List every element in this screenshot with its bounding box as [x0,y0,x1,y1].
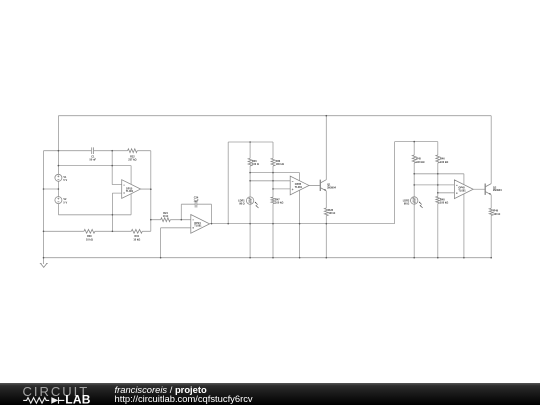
svg-text:1 µF: 1 µF [193,200,199,203]
svg-text:2N3904: 2N3904 [327,187,336,190]
svg-text:98 Ω: 98 Ω [239,203,244,206]
svg-text:100 kΩ: 100 kΩ [440,202,448,205]
svg-text:100 kΩ: 100 kΩ [275,202,283,205]
svg-text:5 V: 5 V [63,179,67,182]
svg-text:2N3904: 2N3904 [493,189,502,192]
svg-text:10 Ω: 10 Ω [163,215,168,218]
svg-text:100 kΩ: 100 kΩ [416,161,424,164]
svg-text:100 kΩ: 100 kΩ [276,163,284,166]
svg-text:100 Ω: 100 Ω [328,212,335,215]
svg-text:100 Ω: 100 Ω [493,213,500,216]
svg-text:10 kΩ: 10 kΩ [86,238,93,241]
svg-text:100 Ω: 100 Ω [252,163,259,166]
svg-text:237 kΩ: 237 kΩ [128,159,136,162]
svg-text:5 V: 5 V [63,201,67,204]
svg-text:TL081: TL081 [194,225,202,228]
svg-text:98 Ω: 98 Ω [404,203,409,206]
svg-text:LAB: LAB [65,393,91,405]
svg-text:10 kΩ: 10 kΩ [133,238,140,241]
svg-text:50 nF: 50 nF [90,159,97,162]
svg-text:100 kΩ: 100 kΩ [440,161,448,164]
svg-text:TL081: TL081 [458,189,466,192]
svg-text:TL081: TL081 [126,190,134,193]
svg-text:TL081: TL081 [295,186,303,189]
